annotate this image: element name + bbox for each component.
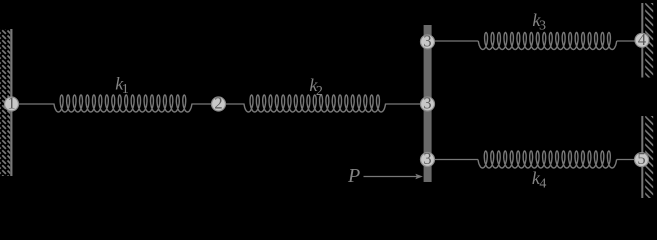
spring k4 xyxy=(478,151,617,168)
left wall hatching xyxy=(0,15,13,191)
svg-text:3: 3 xyxy=(423,94,431,113)
spring k3 xyxy=(478,33,616,50)
right wall bottom hatching xyxy=(645,109,654,202)
node 3 middle xyxy=(421,97,435,111)
node 2 xyxy=(212,97,226,111)
node 4 xyxy=(635,33,649,47)
label k3 xyxy=(532,10,546,34)
svg-text:4: 4 xyxy=(638,30,646,49)
wire node1 to k1 xyxy=(12,103,55,105)
svg-text:P: P xyxy=(347,165,360,187)
svg-text:1: 1 xyxy=(122,82,129,97)
svg-text:4: 4 xyxy=(539,177,546,192)
rigid bar xyxy=(424,25,432,182)
wire k3 to node4 xyxy=(617,40,642,42)
right wall top hatching xyxy=(645,0,654,82)
label k4 xyxy=(532,168,547,192)
label k2 xyxy=(309,75,323,99)
node 1 xyxy=(5,97,19,111)
node 3 bottom xyxy=(421,153,435,167)
svg-text:3: 3 xyxy=(539,19,546,34)
wire node2 to k2 xyxy=(218,103,244,105)
left wall line xyxy=(10,29,12,176)
svg-text:2: 2 xyxy=(214,94,222,113)
force P arrow xyxy=(364,176,418,178)
svg-text:2: 2 xyxy=(316,84,323,99)
svg-text:5: 5 xyxy=(637,149,645,168)
wire k4 to node5 xyxy=(617,159,642,161)
svg-text:3: 3 xyxy=(423,149,431,168)
right wall top line xyxy=(641,3,643,78)
node 5 xyxy=(635,153,649,167)
spring k1 xyxy=(54,95,192,112)
svg-text:3: 3 xyxy=(423,31,431,50)
wire k1 to node2 xyxy=(192,103,218,105)
right wall bottom line xyxy=(641,116,643,198)
wire node3bot to k4 xyxy=(428,159,479,161)
wire k2 to bar node3 xyxy=(386,103,428,105)
wire node3top to k3 xyxy=(428,40,479,42)
spring k2 xyxy=(244,95,386,112)
node 3 top xyxy=(421,35,435,49)
label k1 xyxy=(115,73,129,97)
svg-text:1: 1 xyxy=(7,94,15,113)
